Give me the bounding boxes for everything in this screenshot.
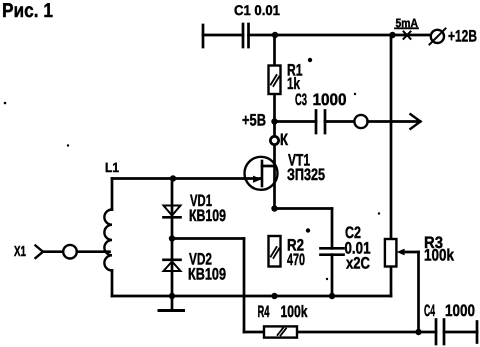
svg-text:КВ109: КВ109 [188,266,226,284]
svg-text:100k: 100k [281,303,309,321]
svg-text:1000: 1000 [445,302,475,320]
svg-text:ЗП325: ЗП325 [287,166,325,184]
svg-text:5mA: 5mA [396,16,419,30]
svg-text:X1: X1 [14,244,26,260]
svg-text:R4: R4 [258,303,270,321]
svg-text:470: 470 [287,251,305,269]
svg-text:1000: 1000 [313,91,347,109]
svg-text:КВ109: КВ109 [189,207,226,225]
svg-text:Рис. 1: Рис. 1 [2,0,53,22]
svg-text:x2C: x2C [346,255,370,273]
svg-text:C4: C4 [424,302,435,320]
svg-text:C3: C3 [295,91,307,109]
svg-text:100k: 100k [424,247,455,265]
svg-text:L1: L1 [105,160,119,175]
svg-text:C1 0.01: C1 0.01 [234,2,280,18]
svg-text:+5В: +5В [242,112,266,130]
svg-text:+12В: +12В [448,28,477,46]
svg-text:К: К [280,131,289,149]
